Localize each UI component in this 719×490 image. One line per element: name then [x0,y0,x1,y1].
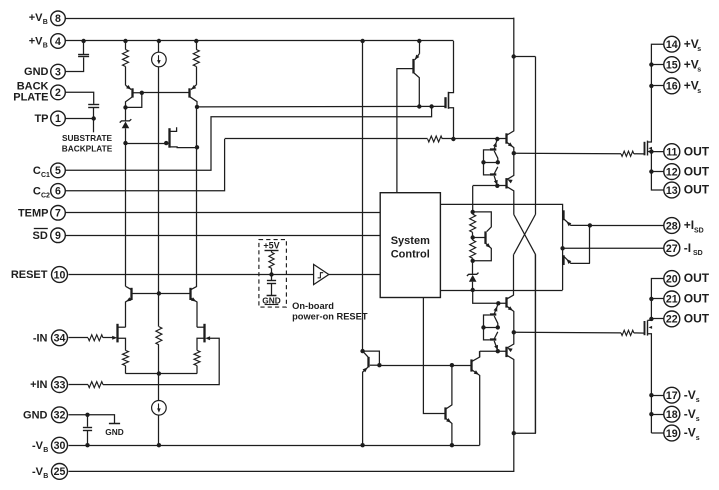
block System Control [380,193,440,298]
svg-text:15: 15 [666,59,678,71]
svg-text:25: 25 [54,466,66,478]
capacitor C1 [78,41,89,57]
pin 9 SD [33,228,66,243]
transistor QD1 NPN [445,365,452,445]
zener Z1 [120,107,132,145]
wire lower diamond B line [480,349,507,357]
node OUT upper diamond [512,151,516,155]
label SUBSTRATE BACKPLATE [62,133,113,154]
wire x=197 vertical [195,107,199,286]
wire pin 3 to capacitor C1 [65,57,83,71]
svg-text:SUBSTRATE: SUBSTRATE [62,133,113,143]
wire pin 32 to ground symbol [69,413,115,424]
pin 7 TEMP [18,206,65,221]
pin 11 OUT [664,144,710,160]
pin 6 CC2 [33,184,65,200]
svg-text:GND: GND [24,66,49,78]
svg-text:TP: TP [34,113,48,125]
transistor QP4 diode-connected PNP [360,349,381,445]
svg-text:+V: +V [29,36,43,48]
wire zener node to F1 gate [126,141,169,145]
svg-text:18: 18 [666,409,678,421]
transistor QS1 [564,210,593,227]
svg-text:19: 19 [666,428,678,440]
svg-text:28: 28 [666,220,678,232]
wire System Control right rail y=290 [440,290,562,292]
svg-text:PLATE: PLATE [13,91,48,103]
svg-text:SD: SD [33,230,48,242]
resistor R4 [470,212,476,240]
FET F1 [170,127,198,148]
transistor QB bias [473,212,492,261]
resistor R5 [470,238,476,263]
resistor R-IN+ [69,382,104,388]
bias pair T3 T4 lower diamond [481,303,500,351]
pin 17 -Vs [664,387,700,404]
transistor QN1 NPN upper diamond [506,18,513,154]
capacitor C2 [88,105,99,108]
wire pin 1 / TP node [65,107,96,132]
transistor QN2 NPN lower diamond [506,295,513,332]
svg-text:OUT: OUT [684,312,710,326]
svg-text:OUT: OUT [684,271,710,285]
svg-text:3: 3 [55,66,61,78]
wire X to lower diamond collector [513,254,515,295]
block on-board reset dashed box [259,240,287,308]
svg-text:13: 13 [666,185,678,197]
pin 5 CC1 [33,163,65,179]
wire CC2 line to diamond base A [225,137,507,141]
svg-text:Control: Control [391,248,430,260]
transistor Q2 PNP [190,85,200,109]
wire Q3 base to System Control top [397,69,414,193]
svg-text:+5V: +5V [263,241,279,251]
wire B to chain [471,186,475,214]
pin 12 OUT [664,164,710,180]
svg-text:RESET: RESET [11,269,48,281]
JFET J2 +IN [197,324,210,351]
pin 25 -VB [32,464,68,481]
wire zener to lower diamond feed [473,290,507,305]
pin 20 OUT [664,271,710,287]
svg-text:17: 17 [666,390,678,402]
svg-text:C1: C1 [41,172,50,179]
svg-text:9: 9 [55,230,61,242]
wire SD to System Control [65,235,380,237]
svg-text:-V: -V [684,426,696,440]
resistor R6 [269,250,274,274]
wire pin 2 to capacitor C2 [65,92,93,104]
pin 8 +VB [29,11,66,26]
svg-text:-V: -V [684,388,696,402]
svg-text:14: 14 [666,39,678,51]
MOSFET M1 output high side [645,141,653,156]
wire TEMP to System Control [65,212,380,214]
wire +VB8 branch vertical [512,54,536,433]
wire System Control bottom vertical [423,298,445,414]
svg-text:34: 34 [54,333,66,345]
JFET J1 -IN [112,324,125,351]
wire crossover X [514,215,536,255]
transistor QP2 PNP lower diamond [506,332,513,433]
capacitor C4 [83,415,92,445]
pin 21 OUT [664,291,710,307]
svg-text:OUT: OUT [684,292,710,306]
resistor R11 [194,350,200,373]
transistor QC2 cascode NPN [157,286,197,327]
resistor R13 [621,330,634,335]
pin 16 +Vs [664,78,702,95]
svg-text:B: B [43,19,48,26]
svg-text:-V: -V [32,466,44,478]
transistor Q3 PNP upper middle [414,41,420,107]
transistor QS2 [560,225,590,265]
svg-text:21: 21 [666,294,678,306]
wire CC1 to gate node [65,107,431,171]
wire System Control right to ISD drivers [440,204,562,290]
wire Q1 base to Q2 base [142,92,190,94]
wire base line y=365.2 [379,363,471,367]
wire OUT drive line upper [514,152,645,155]
svg-text:s: s [696,435,700,442]
ground symbol reset GND [262,296,280,306]
svg-text:B: B [43,43,48,50]
wire -VB(25) rail [69,254,536,471]
wire pin 8 to right vertical [65,18,513,20]
pin 22 OUT [664,311,710,327]
svg-text:SD: SD [693,250,703,257]
resistor R2 [193,41,199,85]
pin 27 -ISD [664,240,703,257]
pin 34 -IN [33,330,68,346]
svg-text:20: 20 [666,273,678,285]
svg-text:s: s [697,67,701,74]
svg-text:BACKPLATE: BACKPLATE [62,144,113,154]
pin 33 +IN [30,377,67,393]
resistor R3 [428,136,443,142]
pin 19 -Vs [664,425,700,442]
svg-text:30: 30 [54,440,66,452]
svg-text:s: s [697,46,701,53]
svg-text:GND: GND [105,427,123,437]
pin 30 -VB [32,437,68,453]
pin 28 +ISD [664,218,704,235]
pin 1 TP [34,111,65,126]
label +5V rail [263,241,279,251]
svg-text:+IN: +IN [30,379,47,391]
wire left vertical x=125.5 [125,143,127,286]
wire buffer output to System Control [329,274,380,276]
svg-text:27: 27 [666,243,678,255]
capacitor C3 [267,275,276,296]
svg-text:33: 33 [54,379,66,391]
svg-text:System: System [391,235,430,247]
svg-text:B: B [43,447,48,454]
pin 10 RESET [11,267,68,283]
wire +VB(4) rail [65,39,453,43]
svg-text:SD: SD [694,228,704,235]
svg-text:16: 16 [666,81,678,93]
svg-text:+V: +V [29,12,43,24]
svg-text:s: s [696,416,700,423]
svg-text:2: 2 [55,87,61,99]
wire RESET to buffer input [69,272,314,276]
wire input stage source rail [126,371,198,375]
resistor R9 center [156,293,162,373]
resistor R12 [621,151,634,156]
svg-text:-IN: -IN [33,332,48,344]
svg-text:1: 1 [55,113,61,125]
pin 2 BACK PLATE [13,80,65,103]
pin 4 +VB [29,34,66,50]
resistor R-IN- [69,335,114,341]
wire diamond B line [473,184,507,188]
transistor Q1 diode-connected PNP [123,85,144,110]
pin 3 GND [24,64,65,79]
svg-text:On-board: On-board [292,301,334,311]
svg-text:-I: -I [684,241,691,255]
svg-text:s: s [696,397,700,404]
svg-text:+I: +I [684,218,694,232]
svg-text:C2: C2 [41,193,50,200]
resistor R10 [123,350,129,373]
wire OUT drive line lower [514,331,645,334]
node OUT lower diamond [512,330,516,334]
MOSFET F2 pre-driver [446,41,454,139]
wire OUT bus upper [649,149,664,190]
bias pair T1 T2 upper diamond [481,139,500,186]
svg-text:C: C [33,165,41,177]
svg-text:32: 32 [54,410,66,422]
transistor QC1 cascode NPN [126,286,159,327]
wire OUT bus lower [649,279,664,322]
svg-text:4: 4 [55,36,61,48]
svg-text:GND: GND [23,409,48,421]
svg-text:OUT: OUT [684,183,710,197]
transistor QP1 PNP upper diamond [506,153,513,214]
svg-text:OUT: OUT [684,144,710,158]
svg-text:C: C [33,186,41,198]
wire -Vs bus [649,393,664,433]
pin 14 +Vs [664,36,702,53]
wire +ISD line [590,225,664,227]
transistor QD2 NPN [472,351,480,445]
resistor R1 [123,41,129,85]
svg-text:OUT: OUT [684,164,710,178]
svg-text:B: B [43,473,48,480]
ground symbol [105,424,123,437]
svg-text:TEMP: TEMP [18,208,49,220]
wire x=362.6 vertical from +VB rail [362,41,364,351]
svg-text:-V: -V [684,407,696,421]
pin 18 -Vs [664,406,700,423]
wire +IN to J2 gate [103,338,219,384]
zener Z2 [467,261,479,292]
svg-text:5: 5 [55,165,61,177]
pin 32 GND [23,407,67,423]
wire -VB(30) rail [69,443,480,447]
svg-text:s: s [697,88,701,95]
MOSFET M2 output low side [645,320,653,433]
wire +Vs bus [647,44,664,142]
svg-text:22: 22 [666,314,678,326]
wire -ISD line [563,247,665,249]
pin 13 OUT [664,182,710,198]
svg-text:power-on RESET: power-on RESET [292,311,368,321]
buffer U1 power-on reset [314,264,329,284]
svg-text:12: 12 [666,166,678,178]
pin 15 +Vs [664,57,702,74]
svg-text:11: 11 [666,146,677,158]
svg-text:10: 10 [54,269,66,281]
svg-text:7: 7 [55,208,61,220]
current source CS1 [152,41,167,293]
current source CS2 [152,374,167,446]
svg-text:-V: -V [32,440,44,452]
svg-text:8: 8 [55,13,61,25]
wire CC2 left segment [65,139,224,191]
svg-text:6: 6 [55,186,61,198]
label On-board power-on RESET [292,301,368,321]
wire gate line y=106.6 [197,104,445,108]
